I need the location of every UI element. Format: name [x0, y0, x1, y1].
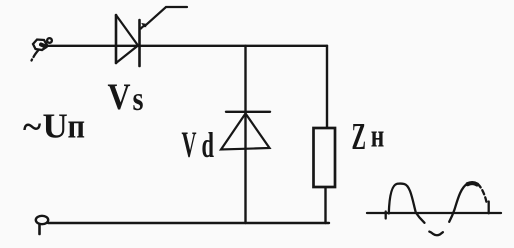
svg-text:d: d [202, 125, 215, 165]
svg-text:U: U [43, 107, 68, 146]
svg-text:s: s [133, 81, 144, 118]
svg-text:V: V [108, 76, 131, 117]
svg-text:V: V [182, 125, 197, 166]
svg-text:~: ~ [23, 107, 41, 146]
svg-text:п: п [68, 107, 86, 146]
svg-text:Z: Z [352, 116, 367, 158]
svg-text:н: н [371, 119, 385, 155]
